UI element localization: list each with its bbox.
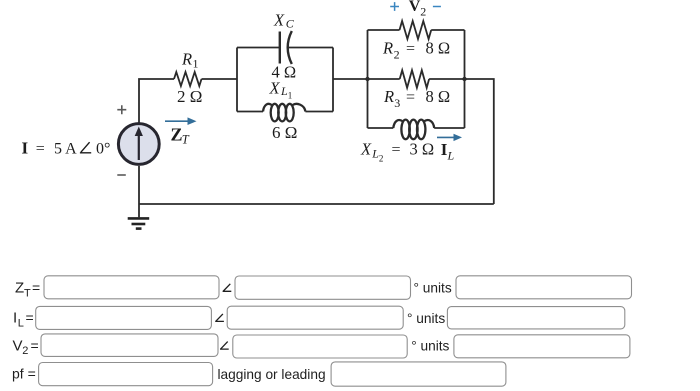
wire box2 right vertical (464, 30, 466, 128)
svg-text:1: 1 (193, 57, 199, 71)
label V2 voltage polarity blue (390, 2, 441, 11)
svg-text:V: V (13, 337, 23, 354)
angle symbol row1 (223, 284, 232, 292)
svg-text:3 Ω: 3 Ω (410, 139, 435, 158)
input box V2 magnitude (41, 334, 218, 357)
svg-text:C: C (286, 17, 295, 31)
svg-text:X: X (273, 11, 285, 30)
capacitor XC (280, 31, 292, 64)
svg-text:° units: ° units (411, 339, 449, 354)
resistor R3 (400, 70, 429, 88)
svg-text:=: = (36, 140, 45, 157)
svg-text:Z: Z (171, 125, 183, 145)
svg-text:=: = (406, 89, 415, 106)
svg-text:2: 2 (22, 345, 28, 357)
svg-text:V: V (409, 0, 421, 15)
input box pf lagging-leading (331, 362, 506, 386)
svg-text:X: X (360, 139, 372, 158)
wire box1 top-left to capacitor (237, 47, 280, 49)
svg-text:2 Ω: 2 Ω (177, 87, 202, 106)
label minus sign of source (117, 174, 126, 176)
input box ZT magnitude (44, 276, 219, 299)
svg-text:R: R (382, 39, 393, 58)
wire source bottom to ground (138, 166, 140, 217)
svg-text:X: X (269, 78, 281, 97)
wire R3 to box2 right (429, 78, 464, 80)
svg-text:=: = (406, 41, 415, 58)
svg-text:2: 2 (394, 48, 400, 62)
svg-text:=: = (32, 280, 40, 296)
input box ZT units (456, 276, 632, 299)
svg-text:T: T (182, 133, 190, 147)
input box IL angle (227, 306, 403, 329)
svg-text:L: L (18, 317, 24, 329)
input box IL units (447, 307, 624, 329)
wire box2 left vertical (367, 30, 369, 128)
node junction left (365, 77, 369, 81)
inductor XL1 (263, 104, 305, 122)
svg-text:8 Ω: 8 Ω (426, 87, 451, 106)
current source arrow (135, 127, 143, 161)
svg-text:2: 2 (420, 4, 426, 18)
wire capacitor to box1 right (288, 47, 333, 49)
svg-text:=: = (26, 310, 34, 326)
wire bottom rail (139, 203, 494, 205)
svg-text:Z: Z (15, 280, 24, 297)
wire box1 to box2 mid rail (333, 78, 368, 80)
input box ZT angle (235, 276, 411, 299)
input box V2 units (454, 335, 630, 358)
svg-text:lagging or leading: lagging or leading (218, 367, 326, 382)
svg-text:R: R (181, 50, 192, 69)
svg-text:3: 3 (394, 96, 400, 110)
input box pf value (39, 363, 213, 386)
wire box2 mid-left (368, 78, 400, 80)
angle symbol row3 (220, 342, 229, 350)
svg-text:I: I (13, 310, 17, 327)
wire box1 left vertical (236, 48, 238, 112)
wire inductor to box1 bottom-right (305, 111, 333, 113)
label plus sign of source (117, 105, 126, 114)
inductor XL2 (393, 120, 434, 140)
resistor R1 (174, 72, 202, 86)
input box V2 angle (233, 335, 407, 358)
svg-text:T: T (24, 287, 31, 299)
svg-text:R: R (383, 87, 394, 106)
resistor R2 (400, 21, 432, 39)
wire box2 top-left (368, 29, 400, 31)
svg-text:2: 2 (379, 153, 384, 163)
svg-text:=: = (31, 337, 39, 353)
angle symbol row2 (215, 314, 224, 322)
svg-text:6 Ω: 6 Ω (272, 123, 297, 142)
svg-text:pf =: pf = (12, 365, 36, 381)
ground (128, 218, 150, 228)
label ZT impedance blue arrow (165, 117, 197, 125)
node junction right (462, 77, 466, 81)
svg-text:1: 1 (288, 90, 293, 100)
svg-text:I: I (22, 138, 29, 157)
current source circle (118, 124, 159, 165)
svg-text:° units: ° units (414, 281, 452, 296)
svg-text:L: L (447, 149, 455, 163)
svg-text:0°: 0° (96, 140, 110, 157)
svg-text:=: = (392, 141, 401, 158)
wire box1 bottom-left to inductor (237, 111, 263, 113)
svg-text:8 Ω: 8 Ω (426, 39, 451, 58)
wire box1 right vertical (332, 48, 334, 112)
svg-text:° units: ° units (407, 311, 445, 326)
wire R2 to box2 right (431, 29, 464, 31)
wire XL2 to box2 bottom-right (434, 127, 464, 129)
svg-text:5 A: 5 A (54, 140, 77, 157)
wire R1 to parallel box1 (202, 78, 238, 80)
wire box2 to right corner and down (465, 79, 494, 204)
wire source top to corner (139, 79, 174, 123)
label IL current blue arrow (437, 134, 462, 141)
wire box2 bottom-left to XL2 (368, 127, 394, 129)
input box IL magnitude (36, 306, 212, 329)
